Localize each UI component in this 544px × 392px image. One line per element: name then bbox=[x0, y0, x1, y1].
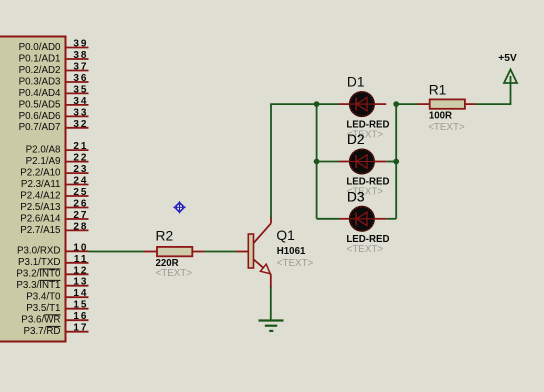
svg-text:R2: R2 bbox=[156, 229, 174, 244]
svg-text:<TEXT>: <TEXT> bbox=[156, 268, 193, 279]
pin 17 P3.7/RD bbox=[23, 323, 88, 337]
svg-text:25: 25 bbox=[73, 187, 88, 198]
svg-text:P0.0/AD0: P0.0/AD0 bbox=[19, 42, 61, 53]
power +5V bbox=[498, 53, 517, 83]
svg-text:P0.4/AD4: P0.4/AD4 bbox=[19, 88, 61, 99]
svg-text:15: 15 bbox=[73, 300, 88, 311]
wire pin10 to R2 bbox=[89, 251, 158, 253]
svg-text:H1061: H1061 bbox=[277, 246, 306, 257]
pin 21 P2.0/A8 bbox=[26, 141, 89, 155]
svg-text:21: 21 bbox=[73, 141, 88, 152]
svg-text:36: 36 bbox=[73, 73, 88, 84]
pin 26 P2.5/A13 bbox=[20, 199, 88, 213]
pin 10 P3.0/RXD bbox=[17, 242, 89, 256]
svg-text:33: 33 bbox=[73, 107, 88, 118]
svg-text:P2.2/A10: P2.2/A10 bbox=[20, 168, 61, 179]
svg-text:28: 28 bbox=[73, 221, 88, 232]
svg-text:24: 24 bbox=[73, 176, 88, 187]
svg-text:37: 37 bbox=[73, 62, 88, 73]
junction dot bbox=[314, 101, 320, 107]
wire Q1 collector to LED bus bbox=[270, 104, 339, 223]
pin 27 P2.6/A14 bbox=[20, 210, 88, 224]
wire D1 to R1 bbox=[396, 103, 417, 105]
LED D2 (LED-RED) bbox=[339, 132, 386, 174]
wire left LED bus bbox=[317, 104, 339, 219]
pin 39 P0.0/AD0 bbox=[19, 39, 89, 53]
svg-text:P2.3/A11: P2.3/A11 bbox=[21, 179, 61, 190]
pin 25 P2.4/A12 bbox=[20, 187, 88, 201]
junction dot bbox=[393, 101, 399, 107]
ground bbox=[259, 321, 284, 331]
pin 15 P3.5/T1 bbox=[26, 300, 88, 314]
pin 12 P3.2/INT0 bbox=[16, 265, 88, 279]
svg-text:22: 22 bbox=[73, 153, 88, 164]
svg-text:35: 35 bbox=[73, 84, 88, 95]
svg-text:P3.6/WR: P3.6/WR bbox=[21, 315, 60, 326]
svg-text:P0.1/AD1: P0.1/AD1 bbox=[19, 53, 61, 64]
LED D3 (LED-RED) bbox=[339, 189, 386, 231]
svg-text:R1: R1 bbox=[429, 83, 447, 98]
svg-text:14: 14 bbox=[73, 288, 88, 299]
svg-text:P2.1/A9: P2.1/A9 bbox=[26, 156, 61, 167]
svg-text:P2.5/A13: P2.5/A13 bbox=[20, 202, 61, 213]
wire Q1 emitter to ground bbox=[270, 274, 272, 320]
svg-text:Q1: Q1 bbox=[276, 228, 294, 243]
pin 16 P3.6/WR bbox=[21, 311, 88, 325]
wire R2 to Q1 base bbox=[192, 251, 248, 253]
pin 33 P0.6/AD6 bbox=[19, 107, 89, 121]
svg-text:P2.7/A15: P2.7/A15 bbox=[20, 225, 61, 236]
junction dot bbox=[314, 159, 320, 165]
svg-text:P0.5/AD5: P0.5/AD5 bbox=[19, 99, 61, 110]
pin 22 P2.1/A9 bbox=[26, 153, 89, 167]
svg-text:P2.6/A14: P2.6/A14 bbox=[20, 213, 61, 224]
resistor R2 bbox=[156, 229, 193, 279]
svg-text:<TEXT>: <TEXT> bbox=[428, 122, 465, 133]
pin 35 P0.4/AD4 bbox=[19, 84, 89, 98]
svg-text:P2.4/A12: P2.4/A12 bbox=[20, 190, 60, 201]
pin 11 P3.1/TXD bbox=[18, 254, 88, 268]
junction dot bbox=[393, 159, 399, 165]
transistor Q1 H1061 (NPN) bbox=[248, 223, 313, 274]
svg-text:P0.6/AD6: P0.6/AD6 bbox=[19, 111, 61, 122]
svg-text:38: 38 bbox=[73, 50, 88, 61]
wire R1 to +5V bbox=[476, 76, 511, 105]
svg-text:27: 27 bbox=[73, 210, 88, 221]
pin 38 P0.1/AD1 bbox=[19, 50, 89, 64]
svg-text:P0.3/AD3: P0.3/AD3 bbox=[19, 76, 61, 87]
svg-text:D1: D1 bbox=[347, 75, 365, 90]
svg-text:P3.1/TXD: P3.1/TXD bbox=[18, 257, 60, 268]
svg-text:34: 34 bbox=[73, 96, 88, 107]
microcontroller U1 (8051) body bbox=[0, 37, 66, 342]
pin 36 P0.3/AD3 bbox=[19, 73, 89, 87]
svg-text:D2: D2 bbox=[347, 132, 365, 147]
svg-text:+5V: +5V bbox=[498, 53, 517, 64]
svg-text:P3.7/RD: P3.7/RD bbox=[23, 326, 60, 337]
pin 14 P3.4/T0 bbox=[26, 288, 88, 302]
svg-text:<TEXT>: <TEXT> bbox=[347, 244, 384, 255]
svg-text:39: 39 bbox=[73, 39, 88, 50]
svg-text:100R: 100R bbox=[429, 110, 452, 121]
pin 32 P0.7/AD7 bbox=[19, 119, 89, 133]
svg-text:26: 26 bbox=[73, 199, 88, 210]
svg-text:P3.4/T0: P3.4/T0 bbox=[26, 292, 61, 303]
LED D1 (LED-RED) bbox=[339, 75, 386, 117]
pin 13 P3.3/INT1 bbox=[16, 277, 88, 291]
svg-text:P0.2/AD2: P0.2/AD2 bbox=[19, 65, 61, 76]
pin 28 P2.7/A15 bbox=[20, 221, 88, 235]
svg-text:<TEXT>: <TEXT> bbox=[277, 258, 314, 269]
svg-text:P2.0/A8: P2.0/A8 bbox=[26, 145, 61, 156]
origin marker bbox=[173, 201, 185, 213]
svg-text:P0.7/AD7: P0.7/AD7 bbox=[19, 122, 61, 133]
pin 37 P0.2/AD2 bbox=[19, 62, 89, 76]
wire right LED bus bbox=[386, 104, 396, 219]
svg-text:23: 23 bbox=[73, 164, 88, 175]
svg-text:17: 17 bbox=[73, 323, 88, 334]
resistor R1 bbox=[418, 83, 476, 133]
pin 24 P2.3/A11 bbox=[21, 176, 89, 190]
svg-text:11: 11 bbox=[74, 254, 88, 265]
svg-text:P3.2/INT0: P3.2/INT0 bbox=[16, 269, 61, 280]
pin 23 P2.2/A10 bbox=[20, 164, 88, 178]
svg-text:13: 13 bbox=[73, 277, 88, 288]
svg-text:P3.0/RXD: P3.0/RXD bbox=[17, 246, 61, 257]
svg-text:12: 12 bbox=[73, 265, 88, 276]
emitter arrow bbox=[260, 264, 270, 273]
svg-text:10: 10 bbox=[73, 242, 88, 253]
svg-text:D3: D3 bbox=[347, 189, 365, 204]
pin 34 P0.5/AD5 bbox=[19, 96, 89, 110]
svg-text:P3.5/T1: P3.5/T1 bbox=[26, 303, 60, 314]
svg-text:32: 32 bbox=[73, 119, 88, 130]
svg-text:P3.3/INT1: P3.3/INT1 bbox=[16, 280, 60, 291]
svg-text:16: 16 bbox=[73, 311, 88, 322]
